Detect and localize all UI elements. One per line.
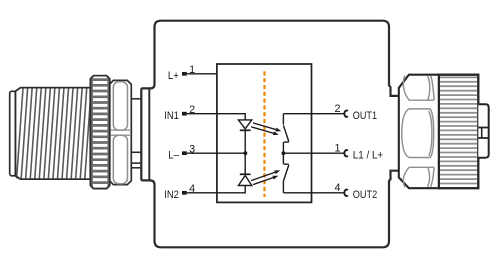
wire L1/L+ (283, 152, 343, 154)
node L1 junction dot (282, 151, 286, 155)
socket contact L1/L+ (344, 150, 347, 156)
svg-text:L+: L+ (168, 70, 179, 82)
socket contact OUT2 (344, 190, 347, 196)
thread hatching (17, 89, 92, 179)
coupling ring knurl ribs (92, 78, 109, 187)
LED D2 cathode bar (240, 173, 251, 175)
light arrow D1 to S1 lower (251, 127, 279, 135)
pin 4 terminal (182, 191, 187, 195)
light arrow D2 to S2 lower (253, 176, 278, 185)
threaded barrel outline (15, 88, 90, 180)
isolation module box U1 (217, 64, 312, 202)
knurled shell ribs (440, 77, 478, 183)
LED D1 triangle (238, 120, 251, 129)
svg-text:L1 / L+: L1 / L+ (353, 149, 383, 161)
wire D1 cathode to D2 cathode (244, 130, 246, 174)
svg-text:OUT1: OUT1 (353, 110, 377, 122)
left port socket face (140, 88, 142, 180)
coupling ring outline (90, 76, 109, 189)
right socket latch clip (478, 104, 488, 158)
switch S2 contact foot (284, 163, 289, 165)
switch S1 contact foot (284, 141, 289, 143)
switch S1 lever (283, 125, 288, 141)
wire OUT2 (283, 192, 343, 194)
light arrow D1 to S1 upper (253, 123, 281, 132)
wire IN2 (187, 192, 217, 194)
pin 2 terminal (182, 112, 187, 116)
knurled shell outline (439, 75, 479, 189)
svg-text:2: 2 (334, 103, 340, 115)
svg-text:1: 1 (189, 64, 195, 76)
latch clip detail lines (478, 128, 488, 139)
wire IN1 to LED D1 anode (217, 114, 245, 120)
wire S2 to OUT2 corner (282, 181, 284, 193)
wire L- to common cathode node (217, 152, 245, 154)
wire L+ (187, 73, 217, 75)
wire OUT1 (283, 113, 343, 115)
plug rear flange ladder rungs (131, 99, 141, 168)
svg-text:IN1: IN1 (164, 110, 179, 122)
hex nut waist lines (110, 130, 131, 135)
svg-text:4: 4 (334, 182, 340, 194)
left plug hex nut (110, 80, 132, 184)
wire L- (187, 152, 217, 154)
left M12 plug end cap (10, 91, 16, 176)
wire S1 to node L1 (282, 142, 284, 164)
wire IN1 (187, 113, 217, 115)
pin 1 terminal (182, 72, 187, 76)
wire LED D2 anode to IN2 (217, 186, 245, 193)
socket contact OUT1 (344, 111, 347, 117)
device body outline with connector port cutouts (141, 21, 399, 248)
svg-text:2: 2 (189, 104, 195, 116)
switch S2 lever (283, 165, 288, 181)
svg-text:L–: L– (168, 149, 179, 161)
svg-text:IN2: IN2 (164, 189, 179, 201)
light arrow D2 to S2 upper (251, 170, 280, 180)
right M12 socket knurled shell (439, 75, 479, 189)
left plug coupling ring (90, 76, 109, 189)
LED D2 triangle (238, 176, 251, 186)
svg-text:OUT2: OUT2 (353, 189, 377, 201)
hex nut upper facet (113, 82, 127, 130)
galvanic isolation barrier (263, 71, 265, 197)
svg-text:3: 3 (189, 144, 195, 156)
node common cathode junction dot (244, 151, 248, 155)
right socket hex body (399, 75, 439, 189)
switch S1 fixed terminal wire (282, 114, 284, 125)
left port socket inner edge (148, 88, 150, 180)
hex body facet lines (402, 76, 434, 188)
pin 3 terminal (182, 151, 187, 155)
left M12 plug threaded barrel (15, 88, 90, 180)
hex nut lower facet (113, 135, 127, 184)
LED D1 cathode bar (240, 129, 251, 131)
svg-text:4: 4 (189, 183, 195, 195)
svg-text:1: 1 (334, 142, 340, 154)
